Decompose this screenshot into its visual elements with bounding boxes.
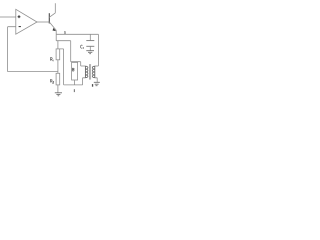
wire R1-R2 link (57, 60, 59, 74)
ground below transformer (94, 82, 100, 85)
transformer T1 primary winding (85, 66, 88, 78)
resistor R2 (56, 73, 60, 85)
wire noninverting input (0, 16, 16, 18)
wire primary top lead (81, 65, 86, 67)
wire emitter bus (56, 33, 98, 35)
transistor Q1 emitter arrowhead (53, 28, 57, 31)
wire left rail to transformer bottom (60, 49, 83, 85)
transformer T1 secondary winding (92, 66, 95, 78)
capacitor C1 stub (89, 34, 91, 40)
capacitor C1 lower stub (89, 46, 91, 50)
label below block (73, 89, 75, 92)
wire output (37, 21, 49, 23)
transistor Q1 collector (49, 3, 55, 17)
ground below C1 (86, 51, 94, 54)
label R2 (50, 80, 54, 84)
transformer T1 core (90, 64, 91, 80)
op-amp minus sign (19, 26, 21, 28)
wire right rail (97, 34, 99, 66)
label R1 (50, 58, 53, 62)
wire inverting input / feedback (8, 27, 58, 72)
wire R1 top link (57, 41, 59, 49)
label in block (73, 68, 75, 71)
block B1 (72, 62, 78, 80)
wire primary bottom lead (83, 78, 86, 85)
wire block bottom stub (73, 80, 75, 85)
resistor R1 (56, 49, 60, 60)
wire secondary bottom lead (95, 78, 97, 82)
label C1 (80, 45, 83, 49)
wire secondary top lead (95, 65, 99, 67)
wire emitter branch down (56, 34, 80, 66)
transistor Q1 base bar (48, 13, 50, 23)
wire block top stub (73, 61, 75, 64)
ground below R2 (55, 93, 62, 96)
label below transformer ground (92, 84, 93, 87)
junction tick node e (64, 31, 66, 34)
op-amp U1 (16, 9, 37, 34)
op-amp plus sign (18, 15, 21, 18)
capacitor C1 plates (86, 40, 94, 42)
transistor Q1 emitter (49, 22, 56, 35)
wire R2 to ground (57, 85, 59, 93)
